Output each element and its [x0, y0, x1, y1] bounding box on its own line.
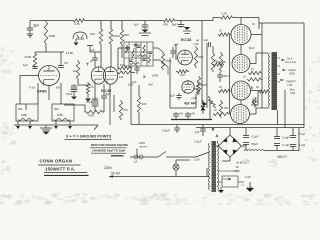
- resistor Rg4: [213, 109, 230, 116]
- svg-text:wBy: wBy: [240, 183, 246, 187]
- wire V1 pins down: [26, 83, 61, 110]
- ground below C7: [139, 27, 151, 36]
- ground stub 2: [28, 121, 32, 129]
- wire V4 plate: [251, 34, 262, 36]
- ground below TH1: [74, 39, 79, 46]
- resistor R23 43K: [137, 95, 146, 114]
- label pin 6: [56, 86, 60, 90]
- capacitor C4 1uF coupling: [90, 48, 98, 67]
- svg-text:8µF: 8µF: [172, 23, 177, 27]
- svg-text:100K: 100K: [142, 56, 147, 58]
- ground below C8: [181, 27, 191, 34]
- fuse F1: [134, 155, 143, 164]
- svg-text:.25µF: .25µF: [222, 74, 229, 78]
- svg-text:0.1µF: 0.1µF: [299, 143, 306, 147]
- label 4x BY127: [236, 161, 249, 165]
- svg-text:a Bxxn: a Bxxn: [243, 158, 251, 162]
- resistor R22 1K: [86, 82, 94, 95]
- label 50uF: [193, 88, 198, 91]
- svg-text:X + Y = GROUND POINTS: X + Y = GROUND POINTS: [66, 135, 112, 139]
- svg-text:100K: 100K: [201, 83, 207, 87]
- svg-text:47K: 47K: [123, 108, 128, 112]
- wire grid bus: [209, 100, 211, 120]
- svg-text:50K: 50K: [18, 107, 23, 111]
- svg-text:2-5µF: 2-5µF: [162, 129, 170, 133]
- switch S1: [130, 152, 210, 158]
- ground below C24: [71, 97, 77, 100]
- capacitor C17: [195, 125, 206, 137]
- wire x114 down: [113, 95, 115, 112]
- transformer T2 core: [212, 141, 217, 192]
- label 100K mid: [152, 74, 159, 78]
- tube V6 output: [232, 81, 251, 100]
- wire V4 top cap: [240, 18, 242, 25]
- svg-text:7.5Ω: 7.5Ω: [287, 84, 292, 87]
- wire splitter verticals: [202, 43, 213, 108]
- wire tubes cathode: [240, 45, 242, 105]
- svg-text:230V: 230V: [104, 166, 113, 170]
- resistor R19 diagonal: [208, 96, 216, 108]
- transformer T1 primary winding: [268, 53, 271, 108]
- svg-text:450V+: 450V+: [277, 155, 286, 159]
- svg-text:Output: Output: [288, 68, 296, 72]
- label 230V: [104, 166, 113, 170]
- svg-text:1K: 1K: [214, 109, 217, 112]
- resistor Rg3: [218, 86, 231, 93]
- svg-text:+400: +400: [191, 96, 197, 100]
- node A marker: [212, 127, 219, 138]
- bridge diode D4: [223, 150, 228, 155]
- svg-text:15K: 15K: [90, 32, 95, 36]
- resistor Rs2 screen 1K: [243, 76, 262, 82]
- wire tap up: [136, 149, 138, 158]
- resistor R20 2.2K on rail: [219, 12, 234, 20]
- wire top HT rail: [30, 18, 219, 21]
- wire cluster feeds: [118, 48, 160, 70]
- capacitor C12 1uF top: [204, 38, 211, 47]
- label 12.6K: [66, 51, 73, 55]
- mains tap text: [139, 141, 148, 149]
- svg-text:1A: 1A: [134, 160, 138, 164]
- svg-text:4.5K: 4.5K: [194, 42, 200, 46]
- transformer T2 secondary winding: [217, 143, 220, 190]
- svg-text:6/9: 6/9: [56, 86, 60, 90]
- capacitor C8 8uF: [172, 21, 184, 27]
- resistor R2 220K: [25, 52, 37, 68]
- label EF86: [37, 89, 47, 94]
- capacitor C23 50uF: [290, 143, 306, 151]
- svg-text:100%: 100%: [289, 73, 296, 76]
- note underline extra: [111, 155, 124, 157]
- svg-text:8µF: 8µF: [34, 24, 40, 28]
- note mod for roger squire: [90, 143, 128, 148]
- resistor R15 100K: [197, 76, 207, 94]
- svg-text:470K: 470K: [92, 97, 98, 101]
- svg-text:.05: .05: [64, 61, 69, 65]
- svg-text:CHANGED 16µF TO 25µF: CHANGED 16µF TO 25µF: [92, 149, 125, 153]
- wire psu bottom: [264, 128, 299, 151]
- ground stub 1: [16, 121, 20, 129]
- input box J1: [16, 104, 38, 121]
- resistor R1 100K: [44, 21, 55, 46]
- tube V5 output: [232, 55, 250, 73]
- wire node V1 grid feed: [35, 45, 64, 52]
- wire R7: [78, 80, 91, 85]
- wire HT rail B: [196, 127, 304, 129]
- capacitor C7 1uF to ground: [134, 21, 149, 28]
- svg-text:2.5µF: 2.5µF: [194, 140, 202, 144]
- svg-text:1µF: 1µF: [170, 94, 175, 98]
- capacitor C10 1uF: [170, 43, 178, 59]
- capacitor C2 .1uF: [22, 63, 38, 69]
- wire lower bus stage2: [64, 105, 104, 118]
- svg-text:0.1µF: 0.1µF: [252, 135, 259, 139]
- svg-text:MOD FOR ROGER SQUIRE: MOD FOR ROGER SQUIRE: [91, 143, 128, 147]
- svg-text:1M: 1M: [119, 75, 124, 79]
- ground bus: [14, 125, 98, 130]
- ground T2 left: [218, 187, 224, 193]
- svg-text:240V: 240V: [139, 141, 145, 145]
- svg-text:10K: 10K: [180, 73, 185, 77]
- svg-text:1K: 1K: [251, 68, 254, 71]
- label tap1: [285, 57, 296, 65]
- svg-text:50 HZ: 50 HZ: [111, 172, 120, 176]
- label tap2: [288, 68, 296, 76]
- svg-text:41K: 41K: [148, 83, 153, 87]
- wire mains bottom: [109, 168, 210, 178]
- resistor R9: [119, 100, 128, 120]
- svg-text:150WATT P.A.: 150WATT P.A.: [45, 167, 75, 172]
- resistor R5 100K: [109, 21, 120, 68]
- svg-text:1K: 1K: [256, 85, 259, 89]
- capacitor C11 1uF grid: [170, 93, 182, 100]
- tone network box: [124, 42, 153, 66]
- ground below R22: [85, 95, 91, 102]
- svg-text:25µF: 25µF: [66, 92, 73, 96]
- svg-text:A: A: [216, 134, 219, 138]
- wire B+ bus: [261, 23, 263, 108]
- heavy bus 440V: [171, 119, 212, 121]
- wire V2 cathodes: [95, 84, 110, 125]
- wire rail drop to splitter: [201, 21, 203, 44]
- label 6.3V b: [247, 186, 253, 190]
- bridge diode D5: [223, 138, 228, 143]
- svg-text:100K: 100K: [57, 113, 63, 117]
- svg-text:470K: 470K: [88, 114, 95, 118]
- svg-text:1K: 1K: [91, 85, 94, 89]
- svg-text:47K: 47K: [163, 23, 168, 27]
- svg-text:1µF: 1µF: [204, 38, 209, 42]
- capacitor C13 .25uF: [217, 72, 229, 82]
- tube V2 ECC83 a: [91, 67, 105, 84]
- svg-text:1K: 1K: [219, 86, 222, 89]
- tube V3b: [182, 81, 194, 93]
- svg-text:115V: 115V: [194, 158, 200, 162]
- wire V7 plate: [250, 108, 263, 114]
- label 2.5uF: [194, 140, 202, 144]
- resistor R8 10K anode: [118, 63, 132, 70]
- label 6.3V a: [245, 175, 251, 179]
- node B plus arrow: [252, 98, 259, 104]
- resistor R4 15K: [90, 21, 103, 68]
- wire lamp: [176, 160, 190, 177]
- capacitor C5 25uF cathode: [86, 100, 98, 112]
- svg-text:4.7K: 4.7K: [74, 22, 80, 26]
- resistor Rg1: [218, 30, 231, 37]
- capacitor C18 0.1uF: [243, 128, 259, 139]
- tap arrow 2: [282, 69, 286, 71]
- wire bridge right: [242, 145, 247, 147]
- wire stage2 top: [90, 51, 101, 53]
- label M 70V: [234, 165, 239, 173]
- bridge rectifier: [219, 135, 242, 157]
- label TR: [252, 22, 255, 26]
- diode D1: [201, 100, 206, 114]
- wire V5 plate: [250, 53, 268, 64]
- input box J2: [52, 104, 74, 121]
- node Y marker: [86, 60, 93, 67]
- svg-text:TAPPED: TAPPED: [139, 146, 148, 149]
- wire V1 grid to box: [20, 76, 39, 105]
- svg-text:Y: Y: [86, 62, 89, 67]
- resistor R12 470K: [161, 52, 172, 70]
- capacitor C20 0.1uF: [274, 128, 289, 140]
- resistor R24 120K: [191, 82, 200, 100]
- transformer T1 core: [272, 52, 278, 110]
- label 41K: [148, 83, 153, 87]
- resistor R18 150: [219, 100, 228, 118]
- svg-text:+40: +40: [179, 112, 184, 116]
- svg-text:µ50: µ50: [193, 88, 198, 91]
- tube V3a: [178, 50, 193, 65]
- svg-text:50K: 50K: [124, 33, 129, 37]
- resistor R3 4.7K on rail: [72, 19, 86, 26]
- tube V7 output: [231, 105, 250, 124]
- svg-text:50K: 50K: [54, 107, 59, 111]
- title 150WATT PA: [44, 167, 89, 176]
- capacitor C24 25uF cathode V2a: [66, 84, 77, 96]
- potentiometer P1: [18, 118, 34, 120]
- svg-text:1.5Ω: 1.5Ω: [290, 92, 295, 95]
- junction bar stage2: [87, 46, 93, 53]
- capacitor C3 .05uF: [58, 52, 68, 68]
- resistor Rg2: [213, 60, 224, 67]
- label 470K stage2: [92, 97, 98, 101]
- wire V6 plate: [251, 91, 269, 109]
- resistor Rs1 screen 1K: [248, 68, 262, 75]
- label tap4: [290, 89, 295, 95]
- label tap3: [286, 80, 296, 88]
- lamp LP1: [173, 164, 179, 170]
- resistor R7 1K: [73, 60, 80, 80]
- resistor R11 1M: [118, 71, 135, 79]
- capacitor C14 40uF: [173, 112, 183, 120]
- ground stub 4: [68, 121, 72, 129]
- svg-text:100K: 100K: [198, 55, 204, 59]
- wire rail right end: [234, 18, 259, 24]
- label 4.5K: [194, 42, 200, 46]
- svg-text:Ax 4: Ax 4: [287, 57, 293, 61]
- tube V4 output: [231, 25, 251, 45]
- label BL N: [249, 47, 255, 50]
- svg-text:0.1µF: 0.1µF: [282, 136, 289, 140]
- wire bridge top: [229, 128, 231, 136]
- svg-text:43K: 43K: [142, 102, 147, 106]
- wire secondary down: [251, 90, 285, 128]
- label ECC83 V2: [101, 89, 112, 93]
- wire jump: [158, 48, 168, 75]
- svg-text:+40: +40: [191, 112, 196, 116]
- label 15K: [128, 83, 133, 87]
- tube V1 EF86: [39, 66, 60, 86]
- note changed caps: [91, 149, 126, 154]
- bleed text faint a: [243, 158, 251, 162]
- title CONN ORGAN: [38, 159, 81, 166]
- tone network parts: [124, 44, 153, 65]
- svg-text:.1µF: .1µF: [22, 63, 28, 67]
- capacitor C19 50uF: [243, 142, 258, 151]
- capacitor C1 8uF input decoupling: [27, 21, 40, 31]
- svg-text:50µF: 50µF: [252, 142, 259, 146]
- heater box: [222, 176, 238, 187]
- svg-text:Very Loud: Very Loud: [285, 61, 296, 64]
- svg-text:1-6V: 1-6V: [245, 175, 251, 179]
- thermistor TH1: [73, 32, 87, 39]
- svg-text:4K: 4K: [196, 39, 200, 43]
- label 115V: [194, 158, 200, 162]
- svg-text:15K: 15K: [128, 83, 133, 87]
- svg-text:150: 150: [224, 106, 229, 110]
- output box border: [259, 23, 304, 128]
- wire mid verticals: [170, 44, 176, 85]
- resistor Rk cathode: [254, 97, 257, 108]
- resistor R16 10K: [211, 52, 220, 72]
- wire HT rail A: [131, 124, 304, 126]
- node X marker: [143, 74, 146, 79]
- tube V2 ECC83 b: [103, 67, 117, 84]
- svg-text:75WATT: 75WATT: [286, 80, 296, 84]
- choke L1: [244, 149, 264, 152]
- svg-text:ECC83: ECC83: [181, 38, 192, 42]
- ground below C1: [27, 30, 33, 37]
- svg-text:1µF: 1µF: [195, 130, 200, 134]
- svg-text:0.1µF: 0.1µF: [299, 132, 306, 136]
- potentiometer P2: [54, 118, 70, 120]
- wire T2 secondary top: [214, 141, 218, 146]
- capacitor C15 40uF: [185, 112, 195, 120]
- svg-text:X: X: [143, 74, 146, 79]
- svg-text:4K: 4K: [223, 60, 227, 64]
- svg-text:1K: 1K: [214, 60, 217, 63]
- wire bridge left: [214, 145, 219, 147]
- transformer T2 primary winding: [208, 143, 211, 190]
- capacitor C9 .1uF: [131, 66, 140, 84]
- svg-text:1µF: 1µF: [134, 23, 139, 27]
- tap arrow 3: [280, 79, 284, 81]
- label 440V feed: [184, 102, 207, 107]
- note X Y ground points: [65, 135, 112, 140]
- capacitor C16 2-5uF: [162, 125, 180, 134]
- svg-text:V-1A: V-1A: [29, 86, 35, 90]
- svg-text:220K: 220K: [25, 55, 32, 59]
- wire splitter bottom: [170, 85, 196, 108]
- resistor R6 50K: [120, 21, 129, 59]
- svg-text:CONN ORGAN: CONN ORGAN: [40, 159, 73, 164]
- label V1A: [29, 86, 35, 90]
- resistor R21 1K secondary: [256, 85, 270, 93]
- transformer T1 secondary taps: [278, 58, 281, 82]
- ground stub 3: [54, 121, 58, 129]
- svg-text:8µF: 8µF: [106, 92, 111, 96]
- svg-text:100K: 100K: [152, 74, 159, 78]
- ground symbol main X: [40, 125, 52, 135]
- resistor R13 10K: [176, 70, 189, 77]
- svg-text:EF86: EF86: [37, 89, 47, 94]
- svg-text:0.1µF: 0.1µF: [282, 143, 289, 147]
- wire bridge bottom: [222, 157, 230, 161]
- bridge diode D3: [233, 150, 238, 155]
- resistor R10 47K on rail: [162, 19, 176, 27]
- wire grid bus vertical: [229, 35, 231, 115]
- svg-text:41K 440: 41K 440: [184, 102, 196, 106]
- tap arrow 1: [281, 59, 285, 61]
- svg-text:1K: 1K: [73, 69, 77, 73]
- capacitor C22 50uF: [290, 128, 306, 138]
- bridge diode D2: [233, 138, 238, 143]
- svg-text:100K: 100K: [113, 34, 120, 38]
- svg-text:1K: 1K: [252, 22, 255, 26]
- label ECC83 V3: [181, 38, 200, 43]
- wire mid verticals 2: [131, 66, 139, 125]
- ground T2 right: [246, 182, 254, 192]
- svg-text:470K: 470K: [166, 59, 172, 63]
- bleed text faint b: [240, 183, 246, 187]
- label 50Hz: [111, 172, 120, 176]
- svg-text:12.6K: 12.6K: [66, 51, 73, 55]
- svg-text:1K: 1K: [243, 76, 246, 79]
- svg-text:1K: 1K: [219, 30, 222, 33]
- svg-text:BL/N: BL/N: [249, 47, 255, 50]
- svg-text:100K: 100K: [21, 113, 27, 117]
- capacitor C6 8uF: [101, 92, 111, 112]
- capacitor C21: [274, 143, 289, 151]
- resistor R17: [219, 52, 226, 72]
- wire heater taps: [218, 171, 245, 182]
- label 450V: [277, 155, 286, 159]
- svg-text:100K: 100K: [49, 34, 56, 38]
- svg-text:2.2K: 2.2K: [221, 12, 227, 16]
- resistor R14 100K anode: [194, 46, 204, 68]
- svg-text:10K: 10K: [120, 63, 125, 67]
- node X at output stage: [251, 86, 254, 90]
- svg-text:25µF: 25µF: [86, 100, 93, 104]
